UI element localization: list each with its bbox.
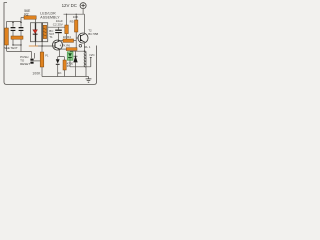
wire tint (orange) on base bus <box>29 45 38 47</box>
12V DC positive terminal <box>80 3 86 9</box>
junction dot B <box>20 22 22 24</box>
wire: ground rail <box>42 76 89 78</box>
resistor R6 (horizontal) <box>66 48 77 51</box>
LDR (inside box) <box>43 25 46 38</box>
svg-text:P1: P1 <box>45 54 49 58</box>
schematic border frame <box>4 3 97 85</box>
preset P1 100K (vertical) <box>40 52 44 67</box>
svg-text:C2 25V: C2 25V <box>53 22 63 26</box>
svg-text:RESET: RESET <box>20 62 30 66</box>
resistor R4 (horizontal) <box>63 39 74 42</box>
svg-text:RL 1: RL 1 <box>84 45 91 49</box>
junction dot H <box>66 14 67 15</box>
wire: R8 bottom lead <box>63 70 65 77</box>
switch S1 push to reset <box>30 53 34 64</box>
wire: R2 left lead <box>21 17 24 19</box>
junction dot D <box>58 40 59 41</box>
junction dot F <box>12 44 13 45</box>
svg-text:N/C: N/C <box>90 53 96 57</box>
svg-text:BC 558: BC 558 <box>88 32 98 36</box>
LED D1 (red, inside box) <box>33 30 38 35</box>
svg-text:SEE TEXT: SEE TEXT <box>4 46 18 50</box>
wire: rail drop to R3 <box>66 14 68 25</box>
resistor R1b (horizontal, sensor bridge) <box>11 36 23 39</box>
junction dot C <box>41 45 43 47</box>
junction dot E <box>84 50 86 52</box>
wire: preset leads <box>41 46 43 77</box>
svg-text:R2: R2 <box>24 12 28 16</box>
wire: left top bus to R1 and C1 caps <box>7 18 22 29</box>
resistor R2 (horizontal, top) <box>24 16 36 19</box>
capacitor C1a <box>11 27 16 31</box>
wire: relay bottom bus <box>70 61 91 77</box>
wire: R3 bottom to R4 top <box>66 34 68 39</box>
wire: assembly box bottom leads to base bus <box>36 42 56 46</box>
svg-text:12V DC: 12V DC <box>62 3 77 8</box>
transistor T1 <box>53 40 63 50</box>
junction dot G <box>20 44 21 45</box>
wire: T2 base bus vertical <box>76 32 78 48</box>
transistor T2 <box>78 33 88 43</box>
wire: V+ top rail <box>64 13 85 15</box>
resistor R8 1K (vertical) <box>63 60 66 70</box>
diode D2 (on T1 emitter) <box>56 59 60 76</box>
wire: T2 collector down to relay bus <box>84 42 86 51</box>
junction dot A <box>12 22 14 24</box>
wire: T1 emitter down <box>58 49 65 60</box>
wire: rail down to T2 emitter <box>84 14 86 33</box>
wire: T1 collector up to R4 node <box>60 40 63 42</box>
capacitor C2 (vertical electrolytic) <box>55 27 62 40</box>
resistor R3 (vertical) <box>65 25 69 34</box>
LDR lead wire (thick, inside box) <box>41 23 43 42</box>
svg-text:1K: 1K <box>58 71 62 75</box>
LED1 green (indicator) <box>67 52 73 60</box>
svg-text:1K R4: 1K R4 <box>63 35 71 39</box>
wire: switch to preset P1 <box>34 60 41 62</box>
svg-text:R5: R5 <box>70 19 74 23</box>
wire: R2 right lead to assembly box <box>35 19 37 23</box>
diode D3 (freewheel, across relay coil) <box>74 51 78 67</box>
capacitor C1b <box>19 27 24 31</box>
svg-text:100K: 100K <box>32 71 41 75</box>
relay contact <box>90 57 92 67</box>
wire: assembly box right lead <box>48 26 65 28</box>
svg-text:4.7K R6: 4.7K R6 <box>60 43 71 47</box>
wire: terminal to rail <box>82 9 84 15</box>
wire: R4 right lead to T2 base bus <box>74 40 77 42</box>
wire: relay top bus <box>70 51 86 52</box>
ground <box>86 77 92 83</box>
wire: rail to R5 <box>75 14 77 20</box>
relay RL1 coil <box>84 52 86 67</box>
wire: R6 left lead to T1 <box>60 48 66 50</box>
svg-text:T1: T1 <box>49 35 53 39</box>
wire: capacitor bottoms to lower bus <box>7 31 32 58</box>
resistor R1 (vertical, left) <box>5 28 9 45</box>
terminal circle near relay <box>79 45 82 48</box>
LED/LDR assembly box <box>31 23 48 42</box>
resistor R5 (vertical) <box>75 20 78 32</box>
junction dot I <box>76 14 77 15</box>
LED lead wire (thick, inside box) <box>35 23 37 42</box>
